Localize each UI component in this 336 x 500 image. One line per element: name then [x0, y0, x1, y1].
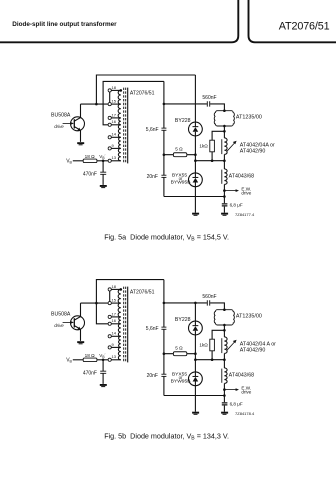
wire: 5 Ohm row [164, 353, 196, 355]
primary winding [118, 289, 121, 359]
junction VB' node [102, 359, 105, 362]
diode D2 BYX55/BYW95B [189, 372, 203, 386]
wire: node row [195, 160, 224, 162]
svg-text:AT4043/68: AT4043/68 [229, 174, 255, 180]
capacitor C1 470nF [100, 371, 106, 373]
wire: rail from collector node to BY228 branch (fig 5a) [96, 75, 195, 104]
wire: C 560nF to bridge coil AT1235 [210, 303, 224, 310]
pin 16 terminal [108, 322, 111, 325]
header rule with tab curves [0, 0, 336, 42]
transformer secondary (solid bar) [127, 88, 129, 164]
svg-text:560nF: 560nF [202, 294, 216, 300]
wire: AT4042 to AT4043 [223, 353, 225, 368]
junction bottom rail / 6,8uF [223, 394, 226, 397]
junction AT1235 bottom [223, 324, 226, 327]
svg-text:5 Ω: 5 Ω [175, 346, 183, 351]
pin 15 terminal [108, 302, 111, 305]
ground (below C 6,8uF) [221, 213, 228, 216]
capacitor C3 20nF [161, 175, 166, 177]
transformer core (dashed) [124, 88, 126, 164]
svg-text:17: 17 [112, 112, 117, 117]
inductor L1 AT1235/00 (bridge coil) [214, 111, 234, 126]
junction 5 Ohm left [163, 352, 166, 355]
svg-text:5,6nF: 5,6nF [146, 326, 159, 332]
junction AT1235 bottom [223, 125, 226, 128]
junction branch / 560nF wire [163, 103, 166, 106]
svg-text:VB: VB [66, 159, 72, 165]
svg-text:15: 15 [112, 99, 117, 104]
wire: branch to R 1k [212, 330, 224, 339]
pin 17 terminal [108, 116, 111, 119]
ground (below BYX55) [192, 412, 199, 415]
resistor R1 18 Ohm [83, 159, 97, 163]
inductor L3 AT4043/68 (E-W coil with core bar) [222, 368, 227, 383]
wire: rail from collector node to modulator branch (fig 5b) [96, 280, 163, 324]
svg-text:6,8 μF: 6,8 μF [230, 401, 243, 406]
junction R 1k bottom [211, 358, 214, 361]
wire: link pin 18 to pin 15 [109, 291, 111, 302]
svg-text:9: 9 [112, 143, 115, 148]
wire: C 470nF to ground [102, 373, 104, 384]
capacitor C5 6,8 uF [222, 204, 228, 206]
svg-text:AT2076/51: AT2076/51 [279, 20, 330, 32]
pin 17 terminal [108, 315, 111, 318]
wire: collector to transformer pin 15 [81, 302, 109, 304]
wire: R 1k to node row [211, 351, 213, 360]
pin 9 terminal [108, 147, 111, 150]
junction R 1k bottom [211, 159, 214, 162]
transformer T1 AT2076/51 (fig 5a) [108, 85, 155, 164]
junction AT1235 top [223, 308, 226, 311]
wire: VB' node down to C 470nF [102, 161, 104, 172]
svg-text:7Z84177.4: 7Z84177.4 [235, 212, 255, 217]
svg-text:VB: VB [66, 358, 72, 364]
wire: modulator branch vertical [163, 81, 165, 196]
junction collector node / rail / pin 16 feed [95, 302, 98, 305]
pin 18 terminal [108, 89, 111, 92]
wire: bottom rail [164, 196, 225, 198]
svg-text:560nF: 560nF [202, 95, 216, 101]
transformer T1 AT2076/51 (fig 5b) [108, 284, 155, 363]
svg-text:16: 16 [112, 119, 117, 124]
wire: VB' node down to C 470nF [102, 360, 104, 371]
svg-text:7Z84178.4: 7Z84178.4 [235, 411, 255, 416]
resistor R2 5 Ohm [173, 352, 186, 356]
wire: to C 6,8uF [223, 197, 225, 204]
resistor R1 18 Ohm [83, 358, 97, 362]
svg-text:5 Ω: 5 Ω [175, 147, 183, 152]
wire: link pin 18 to pin 15 [109, 92, 111, 103]
E.W. drive output arrow [224, 388, 239, 391]
wire: R 18ohm to pin 13 [97, 359, 108, 361]
pin 18 terminal [108, 288, 111, 291]
transistor Q1 BU508A (fig 5a) [71, 104, 85, 142]
primary winding [118, 90, 121, 160]
svg-text:drive: drive [54, 323, 64, 328]
junction node row right [223, 159, 226, 162]
pin 13 terminal [108, 358, 111, 361]
capacitor C1 470nF [100, 172, 106, 174]
junction at winding top [120, 288, 123, 291]
junction AT1235 top [223, 109, 226, 112]
svg-text:drive: drive [54, 124, 64, 129]
svg-text:16: 16 [112, 318, 117, 323]
wire: R 1k to node row [211, 152, 213, 161]
svg-text:17: 17 [112, 311, 117, 316]
junction E-W drive tap [223, 388, 226, 391]
pin 16 terminal [108, 123, 111, 126]
svg-text:1kΩ: 1kΩ [199, 143, 208, 148]
ground (emitter) [77, 341, 84, 344]
inductor L2 AT4042/04A (variable, with core bar and arrow) [222, 337, 237, 353]
junction 1k wire left [194, 159, 197, 162]
svg-text:Diode-split line output transf: Diode-split line output transformer [12, 21, 117, 28]
svg-text:20nF: 20nF [147, 373, 158, 379]
wire: modulator branch vertical [163, 280, 165, 396]
svg-text:drive: drive [241, 191, 251, 196]
ground (below C 470nF) [100, 384, 107, 387]
svg-text:AT1235/00: AT1235/00 [236, 114, 262, 120]
svg-text:20nF: 20nF [147, 174, 158, 180]
transistor Q1 BU508A (fig 5b) [71, 303, 85, 341]
wire: BYX55 to ground [194, 187, 196, 213]
wire: to C 6,8uF [223, 396, 225, 403]
svg-text:VB′: VB′ [99, 353, 105, 359]
pin 15 terminal [108, 103, 111, 106]
transformer secondary (solid bar) [127, 287, 129, 363]
svg-text:18: 18 [112, 284, 117, 289]
wire: branch to C 560nF [164, 103, 207, 105]
diode D1 BY228 [189, 122, 203, 136]
junction collector node / rail [95, 103, 98, 106]
capacitor C4 560nF [207, 300, 209, 305]
resistor R2 5 Ohm [173, 153, 186, 157]
svg-text:AT4042/90: AT4042/90 [240, 348, 266, 354]
wire: VB to R 18ohm [73, 160, 83, 162]
ground (emitter) [77, 142, 84, 145]
wire: C 470nF to ground [102, 174, 104, 185]
capacitor C3 20nF [161, 374, 166, 376]
wire: AT1235 to AT4042 coil [223, 325, 225, 337]
E.W. drive output arrow [224, 189, 239, 192]
inductor L1 AT1235/00 (bridge coil) [214, 310, 234, 325]
resistor R3 1 kOhm [210, 140, 215, 152]
wire: AT4043 to bottom rail [223, 184, 225, 196]
junction E-W drive tap [223, 189, 226, 192]
svg-text:BYW95B: BYW95B [171, 180, 191, 186]
junction 1k branch [223, 329, 226, 332]
svg-text:drive: drive [241, 390, 251, 395]
wire: BY228 to BYX55 [194, 136, 196, 173]
wire: AT4042 to AT4043 [223, 154, 225, 169]
svg-text:1kΩ: 1kΩ [199, 342, 208, 347]
svg-text:5,6nF: 5,6nF [146, 127, 159, 133]
capacitor C5 6,8 uF [222, 403, 228, 405]
junction 5 Ohm right [194, 352, 197, 355]
junction 5 Ohm right [194, 153, 197, 156]
ground (below C 6,8uF) [221, 412, 228, 415]
svg-text:AT2076/51: AT2076/51 [130, 90, 155, 96]
svg-text:18 Ω: 18 Ω [85, 353, 96, 358]
wire: VB to R 18ohm [73, 359, 83, 361]
svg-text:9: 9 [112, 342, 115, 347]
wire: BYX55 to ground [194, 386, 196, 412]
svg-text:14: 14 [112, 132, 117, 137]
junction 560nF wire / BY228 [194, 302, 197, 305]
wire: C 6,8uF to ground [223, 406, 225, 412]
diode D2 BYX55/BYW95B [189, 173, 203, 187]
pin 9 terminal [108, 346, 111, 349]
junction node row right [223, 358, 226, 361]
svg-text:470nF: 470nF [83, 172, 97, 178]
svg-text:AT4043/68: AT4043/68 [229, 373, 255, 379]
pin 14 terminal [108, 335, 111, 338]
capacitor C4 560nF [207, 101, 209, 106]
wire: C 560nF to bridge coil AT1235 [210, 104, 224, 111]
wire: collector to transformer pin 15 [81, 103, 109, 105]
junction 1k wire left [194, 358, 197, 361]
diode D1 BY228 [189, 321, 203, 335]
junction 5 Ohm left [163, 153, 166, 156]
svg-text:14: 14 [112, 331, 117, 336]
pin 13 terminal [108, 159, 111, 162]
transformer core (dashed) [124, 287, 126, 363]
junction bottom rail / 6,8uF [223, 195, 226, 198]
wire: branch to R 1k [212, 131, 224, 140]
wire: BY228 to BYX55 [194, 335, 196, 372]
wire: bottom rail [164, 395, 225, 397]
svg-text:Fig. 5b Diode modulator, VB =: Fig. 5b Diode modulator, VB = 134,3 V. [104, 431, 229, 441]
wire: AT4043 to bottom rail [223, 383, 225, 395]
capacitor C2 5,6nF [161, 128, 166, 130]
svg-text:470nF: 470nF [83, 371, 97, 377]
wire: 5 Ohm row [164, 154, 196, 156]
wire: rail from pin 16 to modulator branch (fig 5a) [103, 81, 164, 124]
wire: AT1235 to AT4042 coil [223, 126, 225, 138]
svg-text:BYW95B: BYW95B [171, 379, 191, 385]
ground (below BYX55) [192, 213, 199, 216]
drive input arrow [63, 321, 74, 324]
inductor L2 AT4042/04A (variable, with core bar and arrow) [222, 138, 237, 154]
ground (below C 470nF) [100, 185, 107, 188]
pin 14 terminal [108, 136, 111, 139]
svg-text:13: 13 [112, 155, 117, 160]
svg-text:18: 18 [112, 85, 117, 90]
svg-text:BY228: BY228 [175, 118, 191, 124]
svg-text:BU508A: BU508A [51, 113, 71, 119]
svg-text:Fig. 5a Diode modulator, VB =: Fig. 5a Diode modulator, VB = 154,5 V. [104, 232, 229, 242]
wire: C 6,8uF to ground [223, 207, 225, 213]
svg-text:6,8 μF: 6,8 μF [230, 202, 243, 207]
svg-text:BU508A: BU508A [51, 312, 71, 318]
svg-text:AT2076/51: AT2076/51 [130, 289, 155, 295]
svg-text:15: 15 [112, 298, 117, 303]
svg-text:BY228: BY228 [175, 317, 191, 323]
wire: R 18ohm to pin 13 [97, 160, 108, 162]
capacitor C2 5,6nF [161, 327, 166, 329]
svg-text:VB′: VB′ [99, 154, 105, 160]
wire: rail down to BY228 [194, 75, 196, 122]
resistor R3 1 kOhm [210, 339, 215, 351]
junction VB' node [102, 160, 105, 163]
junction 1k branch [223, 130, 226, 133]
svg-text:AT4042/90: AT4042/90 [240, 149, 266, 155]
wire: node row [195, 359, 224, 361]
svg-text:AT1235/00: AT1235/00 [236, 313, 262, 319]
inductor L3 AT4043/68 (E-W coil with core bar) [222, 169, 227, 184]
svg-text:18 Ω: 18 Ω [85, 154, 96, 159]
drive input arrow [63, 122, 74, 125]
wire: branch to C 560nF [164, 302, 207, 304]
junction branch / 560nF wire [163, 302, 166, 305]
wire: junction down to BY228 [194, 303, 196, 321]
junction at winding top [120, 89, 123, 92]
svg-text:13: 13 [112, 354, 117, 359]
